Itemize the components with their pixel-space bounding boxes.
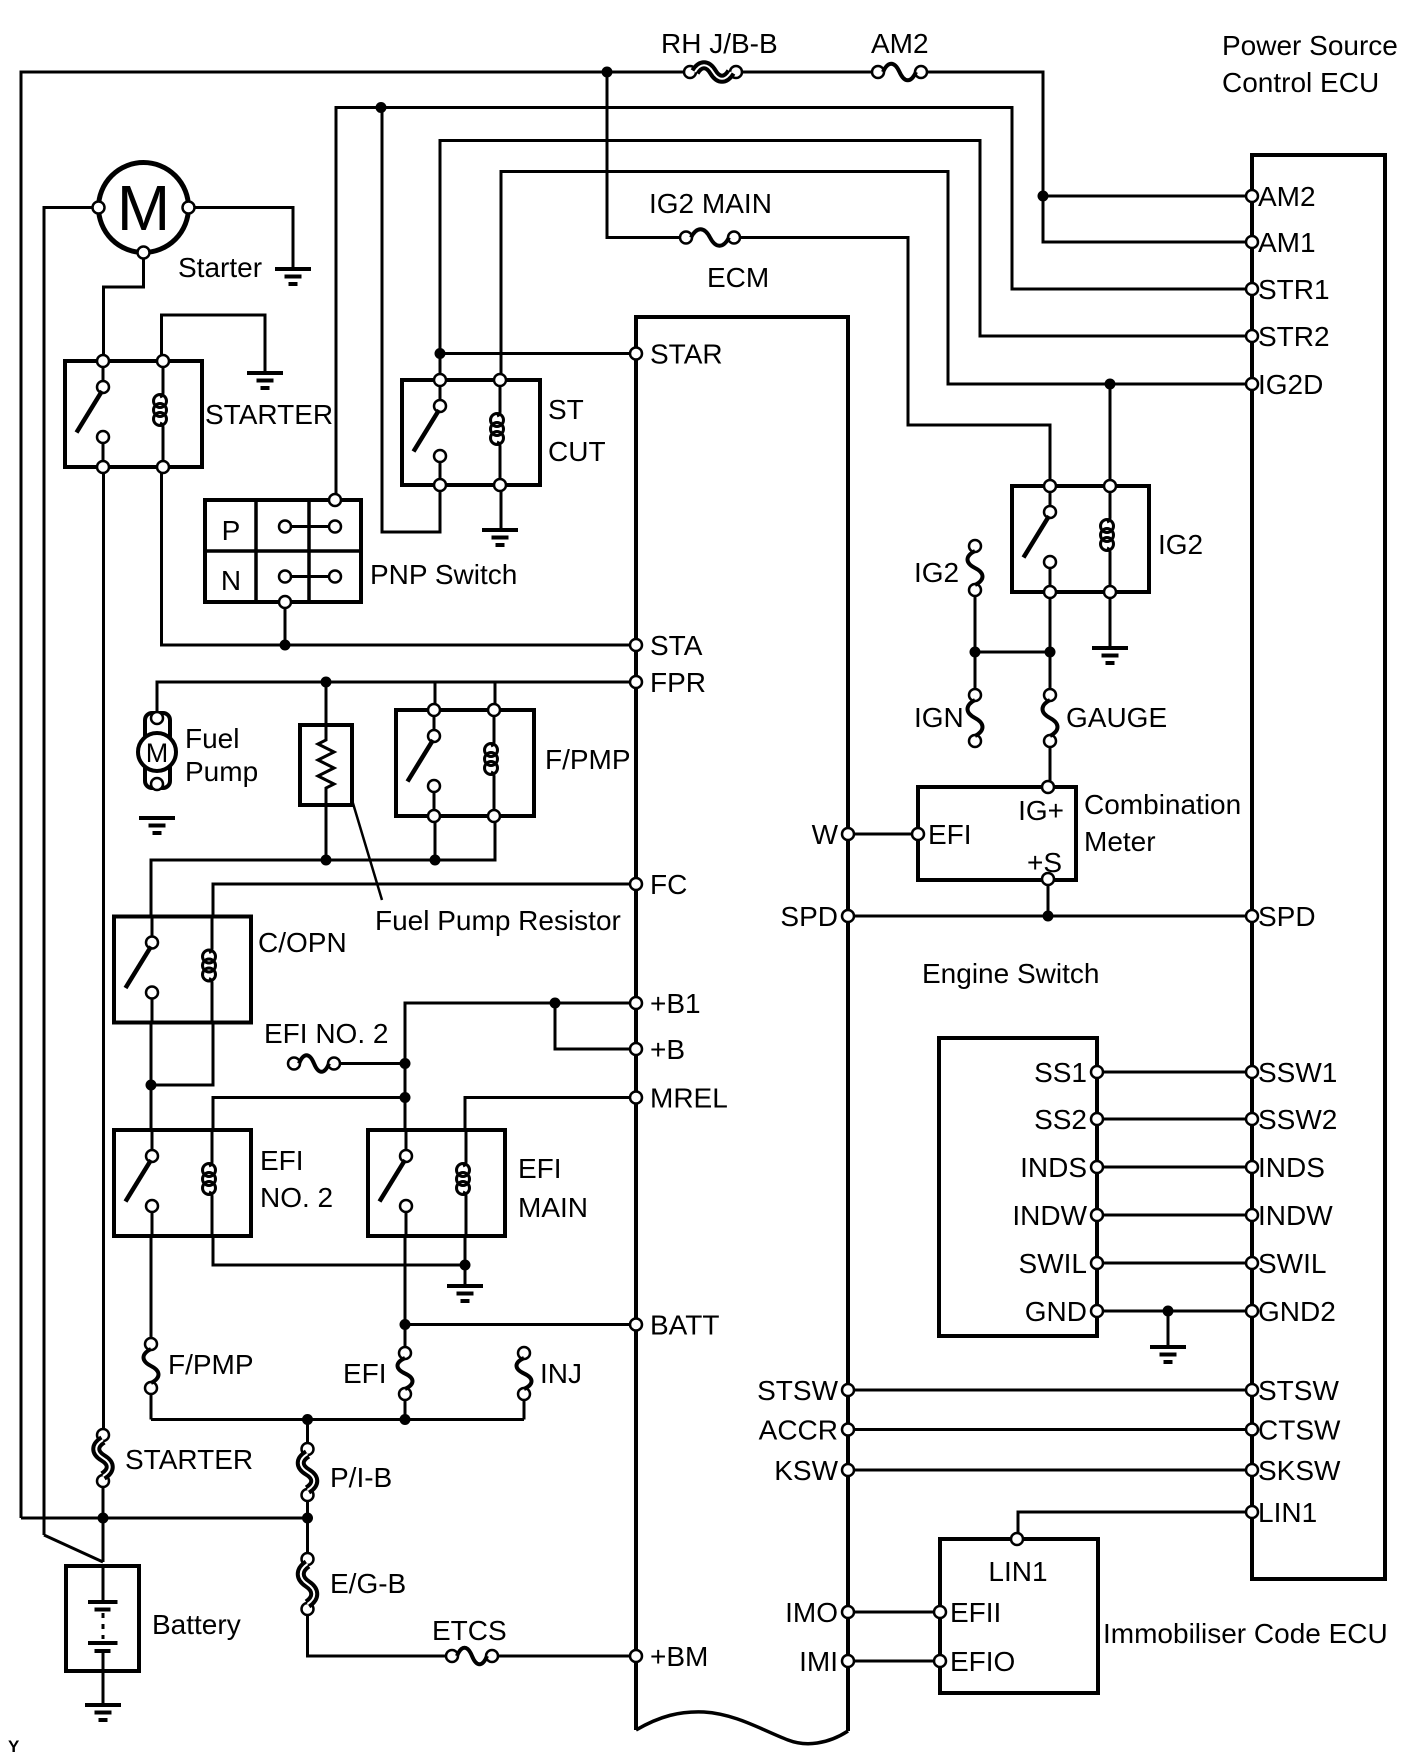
svg-text:PNP Switch: PNP Switch [370, 559, 517, 590]
svg-text:INDS: INDS [1020, 1152, 1087, 1183]
svg-text:SWIL: SWIL [1258, 1248, 1326, 1279]
svg-text:STSW: STSW [757, 1375, 838, 1406]
svg-text:+B: +B [650, 1034, 685, 1065]
svg-text:NO. 2: NO. 2 [260, 1182, 333, 1213]
svg-text:Immobiliser Code ECU: Immobiliser Code ECU [1103, 1618, 1388, 1649]
svg-text:IMI: IMI [799, 1646, 838, 1677]
svg-text:INDW: INDW [1012, 1200, 1087, 1231]
svg-text:+BM: +BM [650, 1641, 708, 1672]
svg-text:+B1: +B1 [650, 988, 701, 1019]
svg-text:SPD: SPD [1258, 901, 1316, 932]
svg-text:STAR: STAR [650, 339, 723, 370]
svg-text:Fuel Pump Resistor: Fuel Pump Resistor [375, 905, 621, 936]
svg-text:GND2: GND2 [1258, 1296, 1336, 1327]
svg-text:INDS: INDS [1258, 1152, 1325, 1183]
svg-text:IG2: IG2 [1158, 529, 1203, 560]
svg-text:SKSW: SKSW [1258, 1455, 1341, 1486]
svg-text:AM1: AM1 [1258, 227, 1316, 258]
svg-text:SS1: SS1 [1034, 1057, 1087, 1088]
svg-text:STARTER: STARTER [125, 1444, 253, 1475]
svg-text:N: N [221, 565, 241, 596]
svg-text:P/I-B: P/I-B [330, 1462, 392, 1493]
svg-text:IMO: IMO [785, 1597, 838, 1628]
svg-text:STR1: STR1 [1258, 274, 1330, 305]
svg-text:EFII: EFII [950, 1597, 1001, 1628]
svg-text:W: W [812, 819, 839, 850]
svg-text:C/OPN: C/OPN [258, 927, 347, 958]
svg-text:SSW1: SSW1 [1258, 1057, 1337, 1088]
svg-text:CTSW: CTSW [1258, 1415, 1341, 1446]
svg-text:MREL: MREL [650, 1083, 728, 1114]
svg-text:Combination: Combination [1084, 789, 1241, 820]
svg-text:IGN: IGN [914, 702, 964, 733]
svg-text:BATT: BATT [650, 1310, 719, 1341]
svg-text:EFIO: EFIO [950, 1646, 1015, 1677]
svg-text:Power Source: Power Source [1222, 30, 1398, 61]
svg-text:AM2: AM2 [1258, 181, 1316, 212]
svg-text:EFI NO. 2: EFI NO. 2 [264, 1018, 388, 1049]
svg-text:EFI: EFI [260, 1145, 304, 1176]
svg-text:Fuel: Fuel [185, 723, 239, 754]
svg-text:P: P [222, 515, 241, 546]
svg-text:STARTER: STARTER [205, 399, 333, 430]
svg-text:Battery: Battery [152, 1609, 241, 1640]
svg-text:IG2D: IG2D [1258, 369, 1323, 400]
svg-text:AM2: AM2 [871, 28, 929, 59]
svg-text:F/PMP: F/PMP [545, 744, 631, 775]
svg-text:FPR: FPR [650, 667, 706, 698]
svg-text:ST: ST [548, 394, 584, 425]
svg-text:GAUGE: GAUGE [1066, 702, 1167, 733]
svg-text:EFI: EFI [343, 1358, 387, 1389]
svg-text:IG+: IG+ [1018, 795, 1064, 826]
svg-text:EFI: EFI [928, 819, 972, 850]
svg-text:MAIN: MAIN [518, 1192, 588, 1223]
svg-text:ACCR: ACCR [759, 1415, 838, 1446]
svg-text:F/PMP: F/PMP [168, 1349, 254, 1380]
svg-text:KSW: KSW [774, 1455, 838, 1486]
svg-text:LIN1: LIN1 [988, 1556, 1047, 1587]
svg-text:SSW2: SSW2 [1258, 1104, 1337, 1135]
svg-text:INJ: INJ [540, 1358, 582, 1389]
svg-text:STR2: STR2 [1258, 321, 1330, 352]
svg-text:Pump: Pump [185, 756, 258, 787]
svg-text:GND: GND [1025, 1296, 1087, 1327]
svg-text:SPD: SPD [780, 901, 838, 932]
svg-text:M: M [117, 172, 170, 244]
svg-text:E/G-B: E/G-B [330, 1568, 406, 1599]
svg-text:IG2: IG2 [914, 557, 959, 588]
svg-text:ETCS: ETCS [432, 1615, 507, 1646]
svg-text:SS2: SS2 [1034, 1104, 1087, 1135]
svg-text:STSW: STSW [1258, 1375, 1339, 1406]
svg-text:Starter: Starter [178, 252, 262, 283]
svg-text:SWIL: SWIL [1019, 1248, 1087, 1279]
svg-text:Meter: Meter [1084, 826, 1156, 857]
svg-text:IG2 MAIN: IG2 MAIN [649, 188, 772, 219]
svg-text:ECM: ECM [707, 262, 769, 293]
svg-text:LIN1: LIN1 [1258, 1497, 1317, 1528]
svg-text:Engine Switch: Engine Switch [922, 958, 1099, 989]
svg-text:Control ECU: Control ECU [1222, 67, 1379, 98]
svg-text:CUT: CUT [548, 436, 606, 467]
svg-text:Y: Y [8, 1737, 20, 1756]
svg-text:M: M [146, 738, 169, 768]
svg-text:INDW: INDW [1258, 1200, 1333, 1231]
svg-text:+S: +S [1027, 847, 1062, 878]
svg-text:FC: FC [650, 869, 687, 900]
svg-text:STA: STA [650, 630, 703, 661]
svg-text:RH J/B-B: RH J/B-B [661, 28, 778, 59]
svg-text:EFI: EFI [518, 1153, 562, 1184]
